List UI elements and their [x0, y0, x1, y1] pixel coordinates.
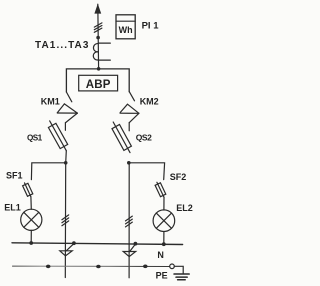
svg-text:N: N [157, 250, 164, 260]
down arrow on right feeder [123, 252, 136, 257]
node EL2-N junction [162, 242, 166, 246]
wire incoming feeder [97, 4, 100, 69]
fuse-switch QS1 [48, 121, 67, 151]
svg-text:TA1...TA3: TA1...TA3 [35, 40, 90, 51]
N tap diagonal right [130, 244, 136, 252]
wire SF1 to EL1 [30, 197, 32, 210]
fuse-switch QS2 [112, 122, 131, 153]
ABP control unit box [79, 75, 118, 91]
contactor KM2 [120, 104, 139, 123]
wire PE to ground [174, 266, 183, 273]
node tap left [64, 161, 68, 165]
PE bus [13, 265, 170, 267]
node PE dot 2 [96, 265, 101, 269]
svg-text:QS2: QS2 [136, 133, 152, 143]
wire SF2 to EL2 [163, 197, 165, 210]
wire outgoing feeder left [64, 163, 66, 278]
PE terminal circle [170, 264, 175, 269]
down arrow on left feeder [60, 251, 72, 256]
breaker SF1 [23, 183, 33, 197]
svg-text:PI 1: PI 1 [142, 21, 160, 32]
wire KM2 to QS2 [128, 123, 130, 131]
wire-count hash marks left feeder [62, 215, 69, 226]
svg-text:EL1: EL1 [4, 202, 21, 212]
node ABP input junction [97, 67, 101, 71]
wire QS1 to tap node [65, 151, 68, 163]
svg-text:SF2: SF2 [170, 172, 187, 182]
svg-text:QS1: QS1 [27, 133, 43, 142]
lamp EL1 [21, 209, 42, 230]
breaker SF2 [155, 182, 166, 197]
current transformer TA1...TA3 [93, 43, 110, 60]
svg-text:Wh: Wh [119, 25, 133, 35]
wire KM1 to QS1 [64, 123, 66, 131]
N bus [12, 243, 183, 245]
node EL1-N junction [29, 241, 33, 245]
wire EL1 to N bus [30, 230, 32, 243]
N tap diagonal left [66, 244, 74, 251]
watt-hour meter PI1 [116, 15, 135, 39]
wire-count hash marks on feeder [94, 23, 102, 32]
svg-text:PE: PE [156, 271, 168, 281]
wire tap to SF2 [129, 163, 165, 180]
feeder source arrow [94, 4, 101, 14]
wire outgoing feeder right [128, 163, 130, 278]
svg-text:EL2: EL2 [176, 203, 193, 213]
wire ABP to KM1 [66, 92, 71, 102]
lamp EL2 [153, 210, 175, 232]
svg-text:ABP: ABP [86, 79, 111, 91]
contactor KM1 [57, 104, 77, 123]
wire-count hash marks right feeder [126, 216, 133, 227]
N tap dot right [134, 242, 138, 246]
ground PE [174, 274, 189, 280]
ABP cabinet outline U1 [66, 69, 129, 92]
wire ABP to KM2 [129, 92, 134, 101]
node PE dot 1 [46, 265, 51, 269]
svg-text:SF1: SF1 [6, 171, 23, 181]
svg-text:KM1: KM1 [41, 96, 60, 106]
svg-text:KM2: KM2 [140, 96, 159, 106]
node PE dot 3 [143, 265, 148, 269]
wire EL2 to N bus [163, 232, 165, 245]
node tap right [127, 161, 131, 165]
wire tap to SF1 [31, 163, 65, 180]
N tap dot left [72, 241, 76, 245]
node CT tap junction [96, 36, 100, 40]
